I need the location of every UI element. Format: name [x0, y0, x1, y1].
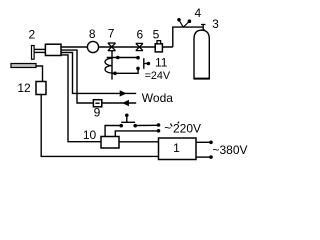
svg-text:5: 5 [153, 27, 160, 41]
svg-text:220V: 220V [173, 122, 201, 136]
riser 1 to switch [105, 126, 119, 137]
wire 3 from box2 to top woda line [61, 53, 136, 94]
svg-text:12: 12 [17, 81, 31, 95]
svg-text:6: 6 [136, 28, 143, 42]
torch tube lines [34, 48, 46, 50]
svg-text:2: 2 [29, 28, 36, 42]
solenoid bottom wire [112, 70, 138, 74]
svg-text:8: 8 [89, 27, 96, 41]
box 2 (torch body) [45, 44, 61, 55]
cylinder valve [201, 24, 205, 26]
svg-text:9: 9 [94, 105, 101, 119]
regulator 5 cap [157, 41, 161, 44]
wire main pipe circle8 to riser [99, 46, 173, 48]
box1 right wires to 380V [196, 141, 211, 143]
torch contact bar [32, 46, 35, 60]
wire bar to box12 [36, 66, 43, 82]
top woda arrow [120, 90, 127, 96]
svg-text:10: 10 [83, 128, 97, 142]
solenoid coil loops [105, 58, 112, 73]
connector terminal dots [136, 56, 140, 60]
sensor stalks 4 [180, 21, 184, 27]
riser 2 to 220V bottom [115, 131, 158, 137]
svg-text:1: 1 [173, 141, 180, 155]
workpiece gray bar [11, 64, 36, 68]
svg-text:7: 7 [108, 27, 115, 41]
pushbutton contacts [119, 124, 123, 128]
valve V6 [136, 43, 143, 50]
junction dots on coil wires [116, 56, 120, 60]
wire box12 down and to box1 [41, 95, 158, 157]
svg-text:=24V: =24V [145, 70, 171, 82]
cylinder neck flange [201, 29, 205, 31]
wire main pipe from box2 to circle 8 [61, 46, 87, 48]
box 12 [36, 82, 46, 95]
wire 2 from box2 to bottom woda line [61, 50, 93, 103]
solenoid stem under valve 7 [111, 51, 113, 80]
pipe riser to cylinder [173, 27, 203, 47]
pushbutton bridge [121, 121, 135, 123]
filter 9 [93, 100, 101, 107]
box 1 [159, 138, 197, 160]
wire box10 to box1 [119, 141, 159, 143]
svg-text:~: ~ [164, 121, 171, 135]
svg-text:Woda: Woda [142, 91, 173, 105]
bottom woda arrow [122, 100, 129, 106]
wire switch to 220V top [137, 124, 159, 126]
bottom woda line [102, 102, 136, 104]
box 10 [101, 137, 119, 149]
valve V7 [108, 43, 116, 51]
svg-text:11: 11 [155, 55, 168, 69]
wire 4 from box2 to box10 [61, 55, 101, 142]
cylinder 3 [194, 30, 209, 78]
svg-text:3: 3 [212, 17, 219, 31]
svg-text:~380V: ~380V [213, 143, 248, 157]
svg-text:4: 4 [194, 6, 201, 20]
solenoid top wire [107, 57, 137, 59]
gauge circle 8 [87, 41, 98, 52]
plug 11 [143, 58, 145, 69]
regulator 5 body [155, 44, 162, 52]
accent marks near 220V [170, 124, 172, 127]
